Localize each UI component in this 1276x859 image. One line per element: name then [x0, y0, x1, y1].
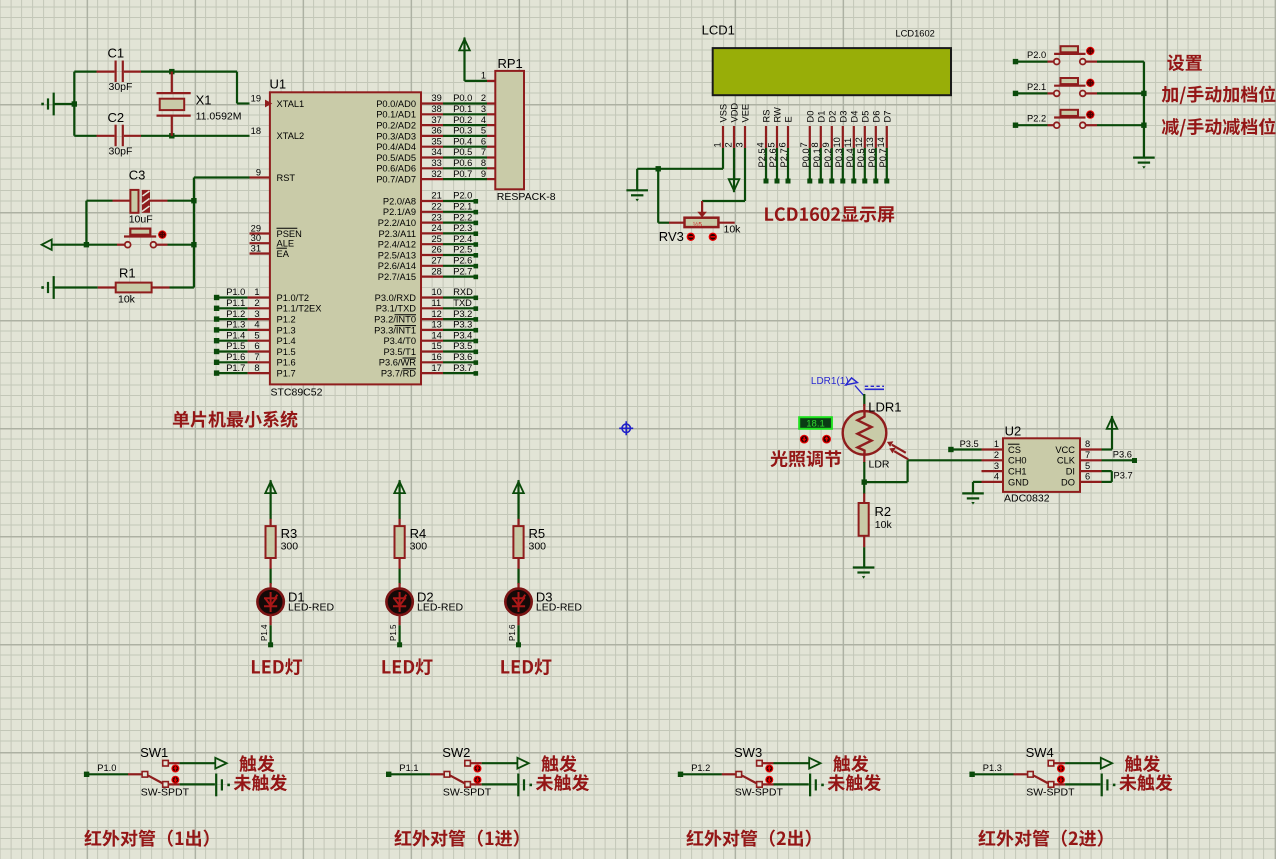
svg-text:P3.7: P3.7: [1114, 471, 1133, 481]
svg-text:P2.4: P2.4: [453, 234, 472, 244]
pin P1.7 U1: [214, 363, 296, 379]
pin P2.5 U1 net terminal: [378, 245, 478, 261]
label: 光照调节: [770, 450, 841, 467]
svg-text:7: 7: [254, 352, 259, 362]
label: 触发: [239, 755, 274, 772]
svg-text:P2.6: P2.6: [768, 148, 778, 167]
label: 红外对管（1进）: [394, 830, 518, 847]
svg-text:RV3: RV3: [659, 229, 684, 244]
pin ALE U1: [250, 233, 295, 248]
svg-text:P1.2: P1.2: [226, 309, 245, 319]
svg-text:P3.2/INT0: P3.2/INT0: [374, 315, 416, 325]
red actuator markers (SW1): [171, 765, 179, 784]
svg-text:P2.0: P2.0: [1027, 50, 1046, 60]
pin D0 LCD1: [799, 111, 815, 184]
svg-text:30pF: 30pF: [109, 146, 133, 158]
svg-text:P1.3: P1.3: [983, 763, 1002, 773]
svg-text:22: 22: [432, 202, 442, 212]
svg-text:P3.6: P3.6: [453, 352, 472, 362]
svg-text:VEE: VEE: [741, 104, 751, 123]
svg-text:2: 2: [994, 450, 999, 460]
svg-text:13: 13: [865, 137, 875, 147]
wire C2 to XTAL2: [141, 133, 250, 138]
net terminal P1.1: [386, 763, 430, 777]
switch SW1 (SW-SPDT): [128, 745, 190, 799]
svg-text:35: 35: [432, 136, 442, 146]
svg-text:RXD: RXD: [453, 287, 473, 297]
svg-text:P2.7: P2.7: [453, 266, 472, 276]
svg-text:7: 7: [799, 142, 809, 147]
svg-text:P2.5: P2.5: [453, 245, 472, 255]
svg-text:P1.7: P1.7: [277, 369, 296, 379]
svg-text:RESPACK-8: RESPACK-8: [497, 191, 556, 203]
svg-text:P0.1/AD1: P0.1/AD1: [376, 110, 416, 120]
pin P1.2 U1: [214, 309, 296, 325]
pin P2.1 U1 net terminal: [383, 202, 478, 218]
svg-text:6: 6: [777, 142, 787, 147]
svg-text:P1.5: P1.5: [226, 341, 245, 351]
svg-text:P0.7: P0.7: [878, 148, 888, 167]
wire LDR to CH0: [862, 460, 982, 485]
svg-text:27: 27: [432, 256, 442, 266]
svg-text:D0: D0: [805, 111, 815, 123]
svg-text:P0.2: P0.2: [823, 148, 833, 167]
svg-text:P0.3: P0.3: [453, 126, 472, 136]
pin CH0 U2: [982, 450, 1027, 466]
switch SW4 (SW-SPDT): [1014, 745, 1076, 799]
svg-text:RS: RS: [762, 110, 772, 123]
svg-text:P3.2: P3.2: [453, 309, 472, 319]
svg-text:D5: D5: [860, 111, 870, 123]
svg-text:½5: ½5: [693, 220, 702, 228]
resistor R3: [266, 519, 299, 590]
svg-text:10k: 10k: [118, 294, 136, 306]
svg-text:30: 30: [251, 233, 261, 243]
red actuator marker (P2.2 button): [1086, 110, 1094, 118]
svg-text:2: 2: [254, 298, 259, 308]
red actuator marker (P2.0 button): [1086, 47, 1094, 55]
svg-text:P0.5: P0.5: [453, 147, 472, 157]
crystal X1: [157, 72, 242, 136]
switch SW2 (SW-SPDT): [430, 745, 492, 799]
red actuator markers (RV3): [687, 233, 717, 241]
pin P0.6 U1 wire to RP1: [376, 158, 495, 174]
svg-text:STC89C52: STC89C52: [271, 387, 323, 399]
svg-text:P1.1/T2EX: P1.1/T2EX: [277, 304, 322, 314]
net terminal P1.0: [84, 763, 128, 777]
switch SW3 (SW-SPDT): [722, 745, 784, 799]
svg-text:6: 6: [481, 136, 486, 146]
pin P2.4 U1 net terminal: [378, 234, 478, 250]
svg-text:10uF: 10uF: [129, 214, 153, 226]
svg-text:U2: U2: [1005, 424, 1022, 439]
svg-text:P1.5: P1.5: [389, 624, 398, 641]
svg-text:P1.2: P1.2: [691, 763, 710, 773]
svg-text:P0.6: P0.6: [453, 158, 472, 168]
svg-text:5: 5: [766, 142, 776, 147]
net terminal P2.1: [1013, 82, 1048, 96]
LCD1 screen: [713, 48, 951, 95]
label: 触发: [1125, 755, 1160, 772]
svg-text:P0.1: P0.1: [812, 148, 822, 167]
capacitor C1: [74, 46, 141, 94]
wire VEE to RV3 wiper: [702, 148, 745, 201]
svg-text:RP1: RP1: [498, 56, 523, 71]
svg-text:CLK: CLK: [1057, 456, 1076, 466]
red actuator markers (SW3): [765, 765, 773, 784]
net terminal P1.3: [969, 763, 1013, 777]
label: LED灯: [382, 658, 432, 675]
label: LCD1602显示屏: [765, 206, 894, 222]
svg-text:GND: GND: [1008, 477, 1029, 487]
svg-text:8: 8: [254, 363, 259, 373]
svg-text:2: 2: [723, 142, 733, 147]
svg-text:28: 28: [432, 266, 442, 276]
svg-text:P2.7/A15: P2.7/A15: [378, 272, 416, 282]
push button (P2.0): [1048, 46, 1144, 64]
svg-text:33: 33: [432, 158, 442, 168]
power terminal VDD (down): [729, 148, 740, 192]
red actuator marker (reset button): [158, 230, 166, 238]
svg-text:P0.4/AD4: P0.4/AD4: [376, 142, 416, 152]
pin P2.7 U1 net terminal: [378, 266, 478, 282]
svg-text:5: 5: [481, 126, 486, 136]
svg-text:1: 1: [481, 71, 486, 81]
svg-text:SW-SPDT: SW-SPDT: [735, 787, 784, 799]
svg-text:P2.2/A10: P2.2/A10: [378, 218, 416, 228]
label: LED灯: [501, 658, 551, 675]
svg-text:300: 300: [529, 541, 547, 553]
svg-text:11.0592M: 11.0592M: [196, 111, 242, 123]
svg-text:P1.4: P1.4: [260, 624, 269, 641]
svg-text:P2.1: P2.1: [1027, 82, 1046, 92]
svg-text:39: 39: [432, 93, 442, 103]
svg-text:P1.1: P1.1: [226, 298, 245, 308]
svg-text:D6: D6: [871, 111, 881, 123]
svg-text:P2.2: P2.2: [1027, 114, 1046, 124]
svg-text:P3.3/INT1: P3.3/INT1: [374, 325, 416, 335]
svg-text:26: 26: [432, 245, 442, 255]
svg-text:P3.5/T1: P3.5/T1: [383, 347, 416, 357]
svg-text:3: 3: [481, 104, 486, 114]
LED D2: [386, 589, 463, 615]
pin P3.3/INT1 U1: [374, 320, 478, 336]
wire GND U2 to ground: [973, 482, 982, 494]
pin D4 LCD1: [843, 111, 859, 184]
pin VCC U2: [1055, 439, 1101, 455]
svg-text:P3.5: P3.5: [453, 341, 472, 351]
ground (buttons): [1133, 157, 1155, 159]
svg-text:5: 5: [254, 330, 259, 340]
svg-text:4: 4: [994, 472, 999, 482]
svg-text:4: 4: [755, 142, 765, 147]
pin D7 LCD1: [876, 111, 892, 184]
wire SW4 upper throw to output arrow: [1054, 758, 1112, 769]
svg-text:P1.7: P1.7: [226, 363, 245, 373]
svg-text:SW-SPDT: SW-SPDT: [443, 787, 492, 799]
svg-text:P1.2: P1.2: [277, 315, 296, 325]
LDR light arrows: [887, 441, 908, 459]
svg-text:12: 12: [854, 137, 864, 147]
svg-text:RST: RST: [277, 173, 296, 183]
svg-text:SW3: SW3: [734, 745, 762, 760]
svg-text:VSS: VSS: [719, 104, 729, 123]
svg-text:7: 7: [1085, 450, 1090, 460]
resistor R2: [859, 482, 893, 567]
ground (R1 row): [41, 276, 98, 299]
svg-text:P0.7: P0.7: [453, 169, 472, 179]
svg-text:P3.7: P3.7: [453, 363, 472, 373]
label: 红外对管（2进）: [978, 830, 1102, 847]
svg-text:R1: R1: [119, 266, 136, 281]
svg-text:1: 1: [254, 287, 259, 297]
svg-text:10: 10: [432, 287, 442, 297]
svg-text:P2.0: P2.0: [453, 191, 472, 201]
svg-text:34: 34: [432, 147, 442, 157]
label: 红外对管（2出）: [686, 830, 810, 847]
pin P3.7/RD U1: [381, 363, 478, 379]
pin CH1 U2: [982, 461, 1027, 477]
svg-text:12: 12: [432, 309, 442, 319]
label: LED灯: [252, 658, 302, 675]
svg-text:P0.4: P0.4: [845, 148, 855, 167]
svg-text:9: 9: [821, 142, 831, 147]
pin GND U2: [982, 472, 1029, 488]
power terminal (D3 column): [513, 480, 524, 519]
pin VEE LCD1: [734, 104, 750, 148]
svg-text:P1.6: P1.6: [508, 624, 517, 641]
ground (R2): [853, 566, 875, 568]
resistor R5: [513, 519, 546, 590]
red actuator marker (P2.1 button): [1086, 79, 1094, 87]
pin RW LCD1: [766, 107, 782, 184]
svg-text:16: 16: [432, 352, 442, 362]
wire C1 to XTAL1: [141, 69, 250, 104]
svg-text:P0.0: P0.0: [801, 148, 811, 167]
wire SW3 upper throw to output arrow: [762, 758, 820, 769]
svg-text:23: 23: [432, 212, 442, 222]
LDR1 photoresistor: [843, 394, 902, 482]
svg-text:C3: C3: [129, 168, 146, 183]
LED D3: [505, 589, 582, 615]
svg-text:DO: DO: [1061, 477, 1075, 487]
svg-text:LED-RED: LED-RED: [536, 602, 583, 614]
svg-text:P1.0/T2: P1.0/T2: [277, 293, 310, 303]
svg-text:LDR1: LDR1: [868, 400, 901, 415]
svg-text:C1: C1: [108, 46, 125, 61]
resistor pack RP1: [495, 56, 555, 203]
label: 设置: [1167, 54, 1202, 71]
push button (P2.2): [1048, 110, 1144, 128]
red actuator markers (SW2): [474, 765, 482, 784]
svg-text:24: 24: [432, 223, 442, 233]
svg-text:D2: D2: [827, 111, 837, 123]
pin P3.1/TXD U1: [376, 298, 478, 314]
svg-text:3: 3: [734, 142, 744, 147]
svg-text:P1.3: P1.3: [277, 325, 296, 335]
svg-text:P0.3: P0.3: [834, 148, 844, 167]
op-amp U1 body (STC89C52 MCU): [270, 77, 422, 399]
pin D1 LCD1: [810, 111, 826, 184]
svg-text:17: 17: [432, 363, 442, 373]
svg-text:P3.4: P3.4: [453, 330, 472, 340]
wire SW1 upper throw to output arrow: [168, 758, 226, 769]
svg-text:29: 29: [251, 224, 261, 234]
svg-text:18: 18: [251, 126, 261, 136]
svg-text:2: 2: [481, 93, 486, 103]
pin P3.6/WR U1: [379, 352, 478, 368]
pin P0.0 U1 wire to RP1: [376, 93, 495, 109]
svg-text:1: 1: [994, 439, 999, 449]
svg-text:LCD1: LCD1: [702, 23, 735, 38]
pin RST U1: [256, 168, 296, 183]
svg-text:LDR1(1): LDR1(1): [811, 376, 849, 387]
wire RP1 pin1: [465, 71, 496, 81]
svg-text:P1.6: P1.6: [277, 358, 296, 368]
push button (P2.1): [1048, 78, 1144, 96]
svg-text:CH0: CH0: [1008, 456, 1027, 466]
svg-text:LED-RED: LED-RED: [288, 602, 335, 614]
wire VSS to ground: [637, 148, 723, 190]
ground (crystal section): [41, 93, 74, 116]
svg-text:P1.0: P1.0: [226, 287, 245, 297]
svg-text:SW2: SW2: [442, 745, 470, 760]
svg-text:P0.6: P0.6: [867, 148, 877, 167]
svg-text:8: 8: [481, 158, 486, 168]
svg-text:11: 11: [432, 298, 442, 308]
pin D2 LCD1: [821, 111, 837, 184]
svg-text:VDD: VDD: [730, 103, 740, 123]
svg-text:9: 9: [481, 169, 486, 179]
svg-text:10: 10: [832, 137, 842, 147]
svg-text:9: 9: [256, 168, 261, 178]
svg-text:13: 13: [432, 320, 442, 330]
svg-text:P2.5: P2.5: [757, 148, 767, 167]
net terminal P3.6: [1102, 450, 1138, 464]
pin P3.4/T0 U1: [383, 330, 478, 346]
svg-text:P2.0/A8: P2.0/A8: [383, 196, 416, 206]
pin XTAL1 U1: [251, 94, 305, 109]
resistor R4: [395, 519, 428, 590]
svg-text:P3.3: P3.3: [453, 320, 472, 330]
label: 未触发: [234, 774, 287, 791]
svg-text:11: 11: [843, 138, 853, 148]
pin P3.2/INT0 U1: [374, 309, 478, 325]
svg-text:300: 300: [410, 541, 428, 553]
svg-text:P2.4/A12: P2.4/A12: [378, 240, 416, 250]
wire RST row: [194, 176, 270, 178]
pin P1.1 U1: [214, 298, 322, 314]
power terminal VCC U2: [1102, 416, 1118, 450]
pin D5 LCD1: [854, 111, 870, 184]
svg-text:DI: DI: [1066, 467, 1075, 477]
svg-text:P0.6/AD6: P0.6/AD6: [376, 164, 416, 174]
svg-text:R3: R3: [281, 526, 298, 541]
svg-text:14: 14: [876, 137, 886, 147]
svg-text:38: 38: [432, 104, 442, 114]
svg-text:P1.4: P1.4: [277, 336, 296, 346]
ground (LCD VSS): [626, 189, 648, 191]
svg-text:SW-SPDT: SW-SPDT: [1026, 787, 1075, 799]
svg-text:P1.1: P1.1: [399, 763, 418, 773]
svg-text:SW4: SW4: [1026, 745, 1054, 760]
pin E LCD1: [777, 116, 793, 183]
torch brightness display: [799, 417, 832, 429]
svg-text:TXD: TXD: [453, 298, 472, 308]
pin CS U2: [982, 439, 1021, 455]
svg-text:31: 31: [251, 244, 261, 254]
svg-text:LDR: LDR: [869, 459, 890, 471]
svg-text:32: 32: [432, 169, 442, 179]
pin VSS LCD1: [712, 104, 728, 148]
svg-text:P3.0/RXD: P3.0/RXD: [375, 293, 417, 303]
svg-text:21: 21: [432, 191, 442, 201]
svg-text:P2.2: P2.2: [453, 212, 472, 222]
svg-text:P3.5: P3.5: [960, 439, 979, 449]
pin P2.0 U1 net terminal: [383, 191, 478, 207]
svg-text:P3.6: P3.6: [1113, 450, 1132, 460]
pin P2.3 U1 net terminal: [378, 223, 478, 239]
pin P2.6 U1 net terminal: [378, 256, 478, 272]
svg-text:P0.2/AD2: P0.2/AD2: [376, 121, 416, 131]
svg-text:VCC: VCC: [1055, 445, 1075, 455]
power terminal (D2 column): [394, 480, 405, 519]
svg-text:P0.7/AD7: P0.7/AD7: [376, 175, 416, 185]
wire D2 to P1.5 terminal: [389, 615, 402, 647]
svg-text:P3.6/WR: P3.6/WR: [379, 358, 416, 368]
svg-text:P1.0: P1.0: [97, 763, 116, 773]
svg-text:P3.4/T0: P3.4/T0: [383, 336, 416, 346]
svg-text:8: 8: [810, 142, 820, 147]
label: 触发: [541, 755, 576, 772]
label: 触发: [833, 755, 868, 772]
pin P2.2 U1 net terminal: [378, 212, 478, 228]
svg-text:6: 6: [254, 341, 259, 351]
wire D3 to P1.6 terminal: [508, 615, 521, 647]
svg-text:R5: R5: [529, 526, 546, 541]
LED D1: [257, 589, 334, 615]
pin P0.3 U1 wire to RP1: [376, 126, 495, 142]
svg-text:P0.5: P0.5: [856, 148, 866, 167]
pin P3.5/T1 U1: [383, 341, 478, 357]
svg-text:ADC0832: ADC0832: [1004, 493, 1050, 505]
svg-text:D7: D7: [882, 111, 892, 123]
svg-text:18.1: 18.1: [806, 418, 825, 429]
svg-text:36: 36: [432, 126, 442, 136]
power terminal (RP1): [459, 38, 470, 81]
capacitor C2: [74, 110, 141, 158]
wire trunk left (C3 to reset row): [84, 201, 89, 248]
ADC U2 body: [1003, 424, 1080, 505]
net terminal P1.2: [678, 763, 722, 777]
svg-text:1: 1: [712, 142, 722, 147]
wire button bus: [1141, 62, 1146, 158]
wire RV3 left leg: [658, 169, 669, 223]
pin P1.0 U1: [214, 287, 309, 303]
svg-text:P2.6: P2.6: [453, 256, 472, 266]
LCD1 label: [702, 23, 935, 39]
svg-text:5: 5: [1085, 461, 1090, 471]
pin P1.6 U1: [214, 352, 296, 368]
net terminal P2.2: [1013, 114, 1048, 128]
svg-text:X1: X1: [196, 93, 212, 108]
pin P1.4 U1: [214, 330, 296, 346]
pin P0.5 U1 wire to RP1: [376, 147, 495, 163]
svg-text:E: E: [784, 116, 794, 122]
svg-text:4: 4: [481, 115, 486, 125]
ground (U2): [962, 492, 984, 494]
svg-text:P3.1/TXD: P3.1/TXD: [376, 304, 417, 314]
